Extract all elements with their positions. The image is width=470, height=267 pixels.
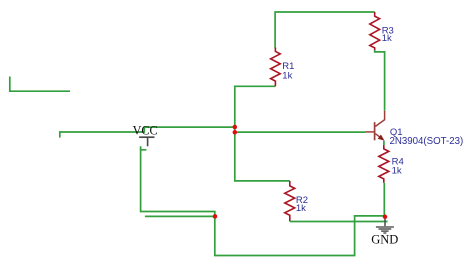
wire: top rail from R1 top to R3 top (275, 12, 375, 48)
wire: VCC vertical link at power pin (144, 127, 235, 133)
transistor Q1 (365, 111, 384, 141)
junction dot at ground (383, 215, 388, 220)
wire: stub into lower-left junction (145, 215, 215, 217)
value R3 1k (382, 33, 392, 44)
wire: R1 bottom to junction column down to R2 top (235, 86, 290, 181)
junction dot at VCC/R1 column lower (233, 130, 238, 135)
wire: top-left L stub (10, 77, 70, 92)
wire: bottom return loop to ground junction (215, 216, 385, 256)
label R1 (282, 61, 294, 72)
label Q1 (390, 127, 403, 138)
label R3 (382, 25, 394, 36)
ground symbol GND (376, 219, 394, 233)
wire: R4 bottom to ground junction (383, 183, 385, 217)
svg-text:1k: 1k (282, 71, 292, 82)
label R4 (392, 157, 404, 168)
resistor R4 (379, 145, 389, 183)
resistor R2 (285, 181, 295, 221)
wire: VCC power drop left column to lower junction (141, 146, 215, 216)
junction dot lower-left (213, 214, 218, 219)
value R1 1k (282, 71, 292, 82)
resistor R1 (271, 48, 281, 87)
wire: R3 bottom to Q1 collector column (375, 50, 385, 111)
wire: Q1 emitter to R4 top (383, 141, 385, 146)
resistor R3 (370, 12, 380, 50)
value Q1 2N3904 (390, 136, 464, 147)
wire: R2 bottom to ground (290, 221, 388, 223)
junction dot at VCC/R1 column upper (233, 125, 238, 130)
value R4 1k (392, 166, 402, 177)
svg-text:VCC: VCC (133, 123, 158, 137)
svg-text:1k: 1k (382, 33, 392, 44)
svg-text:1k: 1k (296, 203, 306, 214)
svg-text:2N3904(SOT-23): 2N3904(SOT-23) (390, 136, 464, 147)
label GND (371, 232, 398, 246)
label R2 (296, 195, 308, 206)
svg-text:1k: 1k (392, 166, 402, 177)
wire: base wire from junction to Q1 (235, 131, 366, 133)
value R2 1k (296, 203, 306, 214)
svg-text:GND: GND (371, 232, 398, 246)
power symbol VCC (139, 137, 154, 146)
label VCC (133, 123, 158, 137)
wire: VCC net left segment with end stub (60, 132, 145, 138)
